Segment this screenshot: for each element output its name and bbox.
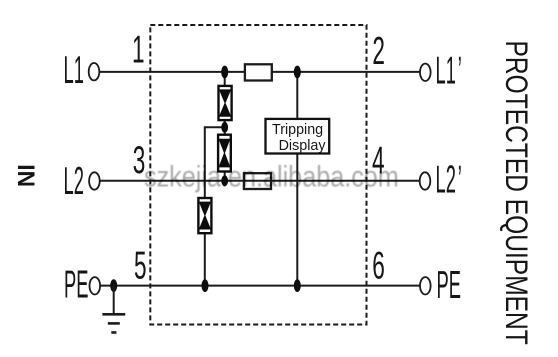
node junction dot V3/PE: [202, 280, 208, 292]
node junction dot L1/tripping branch: [294, 66, 300, 78]
svg-text:Display: Display: [279, 138, 327, 154]
tripping display box U1: [266, 119, 330, 154]
label PE left: [64, 263, 88, 307]
svg-text:L1’: L1’: [436, 49, 462, 93]
terminal circle PE out: [420, 277, 431, 294]
pin number 6: [372, 243, 385, 287]
wire PE line: [100, 285, 420, 287]
varistor / GDT V1: [219, 86, 232, 120]
pin number 4: [372, 138, 385, 182]
node junction dot tripping/PE: [294, 280, 300, 292]
wire tripping display branch L1 to PE: [296, 72, 298, 286]
terminal circle PE in: [90, 277, 101, 294]
wire L2 line: [100, 180, 420, 182]
label IN rotated: [13, 164, 40, 187]
terminal circle L2' out: [420, 172, 431, 189]
pin number 1: [132, 27, 145, 71]
wire jog from node A down to PE through V3: [205, 127, 225, 285]
pin number 5: [134, 243, 147, 287]
svg-text:L2’: L2’: [436, 158, 462, 202]
node A junction dot V1/V2/V3: [222, 122, 228, 132]
watermark szkejia.en.alibaba.com: [144, 159, 399, 193]
label PE right: [437, 263, 461, 307]
svg-text:szkejia.en.alibaba.com: szkejia.en.alibaba.com: [144, 159, 399, 193]
terminal circle L2 in: [89, 172, 100, 189]
varistor / GDT V2: [218, 135, 231, 172]
label L1: [64, 48, 84, 92]
svg-text:6: 6: [372, 243, 385, 287]
node junction dot L1/V1: [222, 66, 228, 78]
wire vertical branch L1 to L2 through V1 V2: [224, 72, 226, 181]
resistor R2 on L2 line: [244, 173, 271, 189]
label L1': [436, 49, 462, 93]
pin number 2: [372, 28, 385, 72]
terminal circle L1' out: [420, 64, 431, 81]
node junction dot V2/L2: [222, 176, 228, 186]
terminal circle L1 in: [89, 63, 100, 80]
varistor / GDT V3: [198, 198, 211, 233]
svg-text:PE: PE: [437, 263, 461, 307]
svg-text:PE: PE: [64, 263, 88, 307]
wire L1 line: [100, 71, 421, 73]
SPD enclosure dashed boundary box: [150, 25, 366, 325]
label L2: [64, 159, 84, 203]
svg-text:1: 1: [132, 27, 145, 71]
svg-text:2: 2: [372, 28, 385, 72]
label PROTECTED EQUIPMENT rotated: [499, 41, 535, 345]
ground symbol: [102, 286, 125, 333]
svg-text:L2: L2: [64, 159, 84, 203]
label L2': [436, 158, 462, 202]
pin number 3: [133, 138, 146, 182]
svg-text:Tripping: Tripping: [272, 122, 323, 138]
node junction dot PE/ground: [111, 280, 117, 292]
svg-text:PROTECTED EQUIPMENT: PROTECTED EQUIPMENT: [499, 41, 535, 345]
svg-text:L1: L1: [64, 48, 84, 92]
svg-text:5: 5: [134, 243, 147, 287]
resistor R1 on L1 line: [245, 64, 272, 80]
svg-text:IN: IN: [13, 164, 40, 187]
